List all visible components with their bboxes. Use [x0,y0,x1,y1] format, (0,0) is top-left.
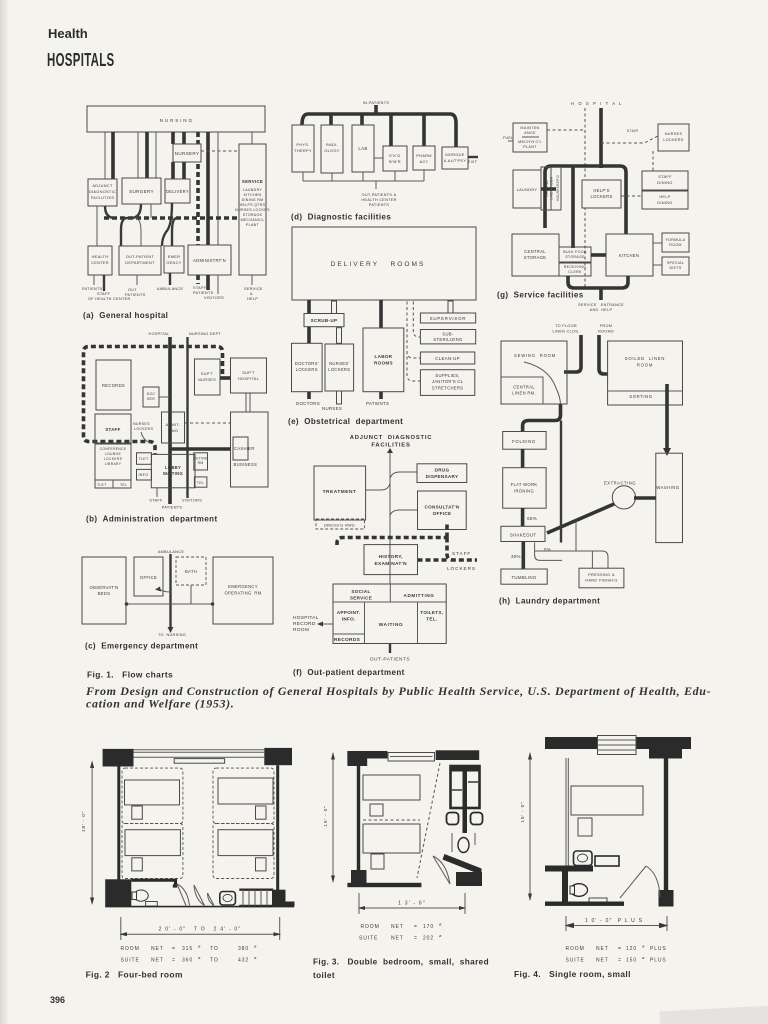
table left bottom [132,858,143,871]
wire diagonal branch down [576,521,592,568]
toilet room walls fig4 [545,866,593,872]
wire thick dashed vertical right [445,524,449,538]
wire sorting divider [608,390,683,392]
window fig4 [598,736,637,755]
window fig3 [388,753,435,762]
svg-text:N U R S I N G: N U R S I N G [160,118,193,123]
svg-text:OBSERVAT'N: OBSERVAT'N [90,585,119,590]
svg-text:=: = [414,936,418,942]
svg-text:OLOGY: OLOGY [324,148,339,153]
box CENTRAL LINEN ROOM vertical [541,167,551,210]
box CONFERENCE LOUNGE [95,444,131,480]
box CASHIER BUSINESS tall [231,412,269,487]
wire hospital thick vertical [168,337,172,504]
svg-text:LINEN CLOS.: LINEN CLOS. [553,330,580,334]
svg-text:EXTRACTING: EXTRACTING [604,481,636,486]
bed fig4 [571,786,643,815]
svg-text:LAUNDRY: LAUNDRY [243,188,263,192]
svg-text:SUITE: SUITE [359,936,378,942]
svg-text:AMBULANCE: AMBULANCE [158,550,184,554]
wire dashed elbow cleanup [407,340,420,358]
dim ticks bottom [121,917,280,940]
wire consult to central [390,510,417,515]
wire dashed to substerilizing [413,302,420,338]
toilet room walls [131,880,175,886]
svg-text:CONSULTAT'N: CONSULTAT'N [424,505,459,510]
svg-text:LOCKERS: LOCKERS [296,367,318,372]
wall block bottom-left [105,879,131,906]
svg-text:NET: NET [596,946,609,952]
svg-text:NET: NET [391,924,404,930]
door leaf 2 [194,885,205,906]
svg-text:CONFERENCE: CONFERENCE [100,447,127,451]
svg-text:INFO: INFO [139,473,149,477]
svg-text:(b) Administration departmen: (b) Administration department [86,515,218,524]
svg-text:AMBULANCE: AMBULANCE [157,287,183,291]
svg-text:LOCKERS: LOCKERS [447,566,476,571]
box BATH [176,557,206,585]
box RECEIVING CLERK [559,263,591,276]
svg-text:2 0' - 0" T O 2 4' - 0": 2 0' - 0" T O 2 4' - 0" [159,927,242,933]
stub admin patients thick [206,275,210,290]
svg-text:NURSES LOCKRS: NURSES LOCKRS [235,208,270,212]
svg-text:STORAGE: STORAGE [243,213,263,217]
wire nursing to surgery thin [137,132,139,178]
svg-text:=: = [618,946,622,952]
wall bar top-left fig4 [545,737,598,749]
svg-text:OUT-PATIENT: OUT-PATIENT [126,254,155,259]
toilet fixture [134,890,148,901]
svg-text:RECORD: RECORD [293,621,316,627]
stub health center staff thick [103,275,105,291]
svg-text:TO: TO [210,958,219,964]
box SHAKEOUT [501,526,545,541]
table left top [132,806,143,819]
svg-text:(g) Service facilities: (g) Service facilities [497,291,584,300]
svg-text:SUPERVISOR: SUPERVISOR [430,316,467,321]
box TLET small [137,453,152,465]
dim line left [91,762,93,904]
box LAUNDRY [513,170,541,208]
wire morgue exit [468,156,478,158]
svg-text:(f) Out-patient department: (f) Out-patient department [293,668,405,677]
box DOCTORS LOCKERS [292,343,323,391]
svg-text:120: 120 [626,946,637,952]
svg-text:NURSES: NURSES [665,132,683,136]
svg-text:PHYS.: PHYS. [296,142,309,147]
svg-text:NURSING DEPT: NURSING DEPT [189,332,222,336]
box MORGUE AUTOPSY [442,147,468,169]
box SUPERVISOR [420,313,475,323]
box TLET TEL row [95,480,131,488]
box PHYS THERAPY [292,125,314,172]
box SUB-STERILIZING [420,330,475,344]
svg-text:SEWING ROOM: SEWING ROOM [514,353,556,358]
wire nursing to delivery thick [182,132,186,179]
wire nursing to nursery thick [171,132,175,144]
curtain cubicle left top [122,768,183,823]
box NURSERY [173,144,201,162]
svg-text:65%: 65% [527,516,537,521]
svg-text:LIBRARY: LIBRARY [105,462,122,466]
wire nursing to surgery thick [145,132,149,178]
box DELIVERY ROOMS [292,227,476,300]
svg-text:TO: TO [210,946,219,952]
svg-text:202: 202 [423,936,434,942]
svg-text:EMERGENCY: EMERGENCY [228,584,258,589]
box KITCHEN [606,234,653,276]
stub ambulance thick [169,273,171,285]
wire outpatients stub [389,644,391,654]
svg-text:SORTING: SORTING [629,394,652,399]
svg-text:SUB-: SUB- [442,332,454,337]
svg-text:INFO.: INFO. [342,617,356,622]
svg-text:DIAGNOSTIC: DIAGNOSTIC [89,189,116,194]
svg-text:SURGERY: SURGERY [129,189,154,194]
wire lobby to cashier thick [170,447,231,451]
stub admin staff dashed [196,275,200,284]
lavatory fig4 [574,851,593,866]
wire collector phys [302,172,304,181]
svg-text:LOUNGE: LOUNGE [105,452,122,456]
wall left vertical [357,766,360,871]
svg-text:CLEAN-UP: CLEAN-UP [435,356,460,361]
box TEL [194,477,207,487]
svg-text:B'M'R: B'M'R [389,159,401,164]
svg-text:NURSERY: NURSERY [175,151,199,156]
svg-text:NURSES: NURSES [198,377,216,382]
svg-text:=: = [172,946,176,952]
box CLEAN-UP [420,352,474,364]
stub health center patients [93,275,95,285]
wire supt link thick [220,376,231,380]
svg-text:BUSINESS: BUSINESS [234,462,258,467]
wire supt hospital down open [246,394,250,413]
svg-text:JANITOR'S CL: JANITOR'S CL [432,379,464,384]
box SOC SER [143,387,159,407]
wire main bus [302,114,456,147]
wire hospital dashed vertical [584,108,586,288]
wire open stub scrubup [332,301,337,314]
svg-text:FLAT WORK: FLAT WORK [511,482,538,487]
svg-text:NURSES: NURSES [322,406,342,411]
box TREATMENT [314,466,366,520]
svg-text:ø: ø [439,922,442,927]
wire shakeout to tumbling thick [521,542,525,570]
wall step extension fig4 [649,749,682,759]
box PHARMACY [413,146,435,170]
svg-text:LOBBY: LOBBY [165,465,181,470]
wire dashed to supplies [407,302,420,382]
wire thick dashed horizontal [337,538,447,546]
box NURSES LOCKERS [658,124,689,151]
window sill [174,759,224,764]
box DELIVERY [165,179,190,203]
box LOBBY WAITING [151,454,195,487]
toilet fig3 [458,838,469,853]
svg-text:HOSPITAL: HOSPITAL [293,615,319,621]
center divider black [463,766,468,833]
box CONSULTATN OFFICE [418,491,467,530]
svg-text:(h) Laundry department: (h) Laundry department [499,597,600,606]
box ADMINISTRATION [188,245,231,275]
bed left top [125,780,180,805]
svg-text:SER: SER [147,397,155,401]
svg-text:LINEN RM.: LINEN RM. [512,391,536,396]
wire folding to ironing thick [521,449,525,468]
closet shelf line [452,789,462,791]
wire nursing to administration dashed [196,132,200,245]
door leaf 1 [177,884,186,906]
svg-text:HELP: HELP [659,194,670,199]
box STAFF [95,414,131,443]
wall block bottom-right fig4 [659,890,674,907]
svg-text:SOILED LINEN: SOILED LINEN [625,356,665,361]
wire nurses bottom open stub [337,391,342,404]
svg-text:ANCE: ANCE [524,131,536,135]
svg-text:STORAGE: STORAGE [565,255,585,259]
box SOILED LINEN ROOM [608,341,683,405]
box BULK FOOD STORAGE [559,247,591,262]
wall stub right of block [286,902,295,907]
svg-text:STAFF: STAFF [452,551,471,556]
svg-text:HEALTH: HEALTH [92,254,109,259]
svg-text:FACILITIES: FACILITIES [91,195,115,200]
svg-text:TO NURSING: TO NURSING [158,633,186,637]
door arc fig3 [433,856,450,884]
wire dashed staff loop [84,347,223,455]
wire ironing to shakeout thick [521,508,525,526]
svg-text:MAINTEN: MAINTEN [520,126,539,130]
svg-text:HELP'S: HELP'S [593,188,609,193]
wire delivery to scrubup thick [307,300,311,314]
box SEWING ROOM / CENTRAL LINEN RM [501,341,567,404]
svg-text:ROOM: ROOM [293,627,309,633]
wall right thick fig4 [664,758,668,890]
window band top [134,750,266,757]
svg-text:1 3' - 6": 1 3' - 6" [398,901,426,907]
wire scrubup to doctors thick [307,327,311,344]
svg-text:EXIT: EXIT [468,160,478,164]
svg-text:ADJUNCT DIAGNOSTIC: ADJUNCT DIAGNOSTIC [350,435,433,441]
svg-text:WAITING: WAITING [379,622,404,628]
svg-text:PRESSING &: PRESSING & [588,572,615,577]
svg-text:OPERATING RM: OPERATING RM [224,591,261,596]
stub admin visitors [217,275,219,294]
wire doctors bottom stub [307,392,311,399]
svg-text:LOCKERS: LOCKERS [663,138,683,142]
wall bar top-left [347,751,387,759]
wire mid to emergency thick [172,218,177,246]
bottom wall bar [347,883,421,887]
wire divider appoint [364,602,366,644]
svg-text:DELIVERY ROOMS: DELIVERY ROOMS [331,261,426,268]
svg-text:ADMITTING: ADMITTING [404,593,435,598]
svg-text:LOCKERS: LOCKERS [328,367,350,372]
wire delivery to emergency curve [162,203,172,246]
svg-text:PATIENTS: PATIENTS [366,401,389,406]
svg-text:(c) Emergency department: (c) Emergency department [85,642,198,651]
svg-text:HOSPITAL: HOSPITAL [149,332,170,336]
bed fig3 bottom [363,824,420,853]
wire nursing to adjunct thin [104,132,106,179]
wire drop radiology [329,114,333,125]
svg-text:HOSPITAL: HOSPITAL [238,376,260,381]
table right top [256,806,267,819]
svg-text:AND HELP: AND HELP [590,308,613,312]
svg-text:IN-PATIENTS: IN-PATIENTS [363,101,390,105]
wire elbow from rooms thick [599,335,608,374]
svg-text:(d) Diagnostic facilities: (d) Diagnostic facilities [291,213,391,222]
wall corner block left [347,751,367,766]
left scan edge shading [0,0,9,1024]
svg-text:KITCHEN: KITCHEN [619,253,639,258]
svg-text:TLET: TLET [139,457,149,461]
box OBSERVATN BEDS [82,557,126,624]
wire central vertical [389,462,391,584]
svg-text:TEL: TEL [197,481,205,485]
wire nursing to service thin [251,132,253,144]
svg-text:LAUNDRY: LAUNDRY [517,187,538,192]
svg-text:SERVICE: SERVICE [244,287,263,291]
wire elbow to floor linen thick [564,335,581,372]
wire nursing dept vertical [186,337,188,498]
box EKG BMR [383,146,407,171]
box FOLDING [503,432,546,450]
toilet fig4 [571,884,588,897]
svg-text:&: & [250,292,253,296]
svg-text:DINING: DINING [657,180,672,185]
svg-text:NET: NET [151,946,164,952]
svg-text:396: 396 [50,995,65,1005]
label suite net fig4 [566,955,667,964]
wire collector radiology [331,173,333,181]
svg-text:OFFICE: OFFICE [433,511,452,516]
svg-text:FACILITIES: FACILITIES [371,443,410,449]
wire divider horizontal [333,601,446,603]
box HEALTH CENTER [88,246,112,275]
bottom wall line [105,906,294,908]
wire office arrow [159,589,171,592]
svg-text:IRONING: IRONING [514,489,534,494]
wire nursing to surgery thin2 [155,132,157,178]
svg-text:LOCKERS: LOCKERS [104,457,123,461]
wire arrow up [389,452,391,462]
svg-text:DINING RM: DINING RM [242,198,264,202]
svg-text:PATIENTS: PATIENTS [193,291,214,295]
wire mid to outpatient curve [135,218,141,246]
svg-text:NURSES: NURSES [133,422,150,426]
box NURSES LOCKERS [325,344,354,391]
svg-text:PATIENTS: PATIENTS [162,506,183,510]
svg-text:ROOM: ROOM [566,946,585,952]
closet frame right [451,766,480,808]
box STAFF DINING [642,171,688,190]
wire bulkfood-kitchen thick [591,253,606,257]
svg-text:RECORDS: RECORDS [102,383,125,388]
shelf fig4 [589,898,607,904]
wire kitchen-special [653,264,662,266]
svg-text:HOSPITALS: HOSPITALS [47,50,115,70]
box ADMITTING [162,412,185,443]
wire bottom loop thick [568,276,628,288]
svg-text:OUT: OUT [128,288,137,292]
svg-text:HISTORY,: HISTORY, [379,554,404,560]
box LABOR ROOMS [363,328,404,392]
box HISTORY EXAMINATN [364,545,418,575]
svg-text:& AUT'PSY: & AUT'PSY [444,158,467,163]
svg-text:FOLDING: FOLDING [512,439,536,444]
wire divider social-admitting [389,584,391,602]
wall right [276,765,279,892]
svg-text:PATIENTS: PATIENTS [369,203,390,207]
wire collector lab [362,172,364,181]
dim line bottom [121,933,280,935]
svg-text:DRUG: DRUG [435,468,450,473]
box EMERGENCY OPERATING RM [213,557,273,624]
dim line bottom fig4 [566,916,667,931]
box FORMULA ROOM [662,233,689,252]
box SERVICE tall [239,144,266,275]
wire main loop thick [545,166,626,234]
svg-text:SHAKEOUT: SHAKEOUT [510,533,537,538]
svg-text:EXAMINAT'N: EXAMINAT'N [375,561,408,567]
svg-text:DINING: DINING [657,200,672,205]
svg-text:FUEL: FUEL [503,136,513,140]
svg-text:APPOINT.: APPOINT. [337,610,361,615]
svg-text:cation and Welfare (1953).: cation and Welfare (1953). [86,697,234,711]
label suite net fig2 [121,955,258,964]
svg-text:TEL: TEL [120,483,127,487]
svg-text:DELIVERY: DELIVERY [166,189,189,194]
svg-text:MECH'N'C'L: MECH'N'C'L [518,140,542,144]
curtain cubicle left bottom [122,824,183,879]
svg-text:15' - 0": 15' - 0" [323,805,329,826]
svg-text:(e) Obstetrical department: (e) Obstetrical department [288,417,403,426]
label suite net fig3 [359,933,442,942]
stub service help [251,275,253,285]
svg-text:ADMINISTRT'N: ADMINISTRT'N [193,258,226,263]
svg-text:EMER: EMER [168,254,180,259]
svg-text:ROOMS: ROOMS [598,330,614,334]
wire adjunct thick to mid [105,206,115,218]
closet top band [450,766,480,772]
svg-text:PATIENTS: PATIENTS [125,293,146,297]
circle EXTRACTING [612,486,635,509]
door leaf fig4 [620,866,646,898]
svg-text:OUT-PATIENTS: OUT-PATIENTS [370,657,410,663]
box HELP DINING [642,191,688,209]
svg-text:STAFF: STAFF [97,292,111,296]
svg-text:DIETS: DIETS [669,266,681,270]
wire maintenance dashed to hospital line [547,129,585,131]
svg-text:ø: ø [254,944,257,949]
svg-text:DOCTORS: DOCTORS [296,401,320,406]
svg-text:PLANT: PLANT [246,223,260,227]
label room net fig2 [121,944,258,953]
wire pressing horizontal [535,551,608,568]
wire nurses lockers down dashed [652,151,654,171]
dim line bottom fig3 [359,907,465,909]
wire labor bottom stub [379,392,383,399]
svg-text:LAB: LAB [358,146,367,151]
wire adjunct down to mid [96,206,98,246]
wire middle horizontal braided [104,216,239,220]
svg-text:ROOMS: ROOMS [374,361,393,366]
wall block bottom-right fig3 [456,872,482,886]
wire staff stub [156,488,158,497]
door arc fig4 [646,866,660,897]
